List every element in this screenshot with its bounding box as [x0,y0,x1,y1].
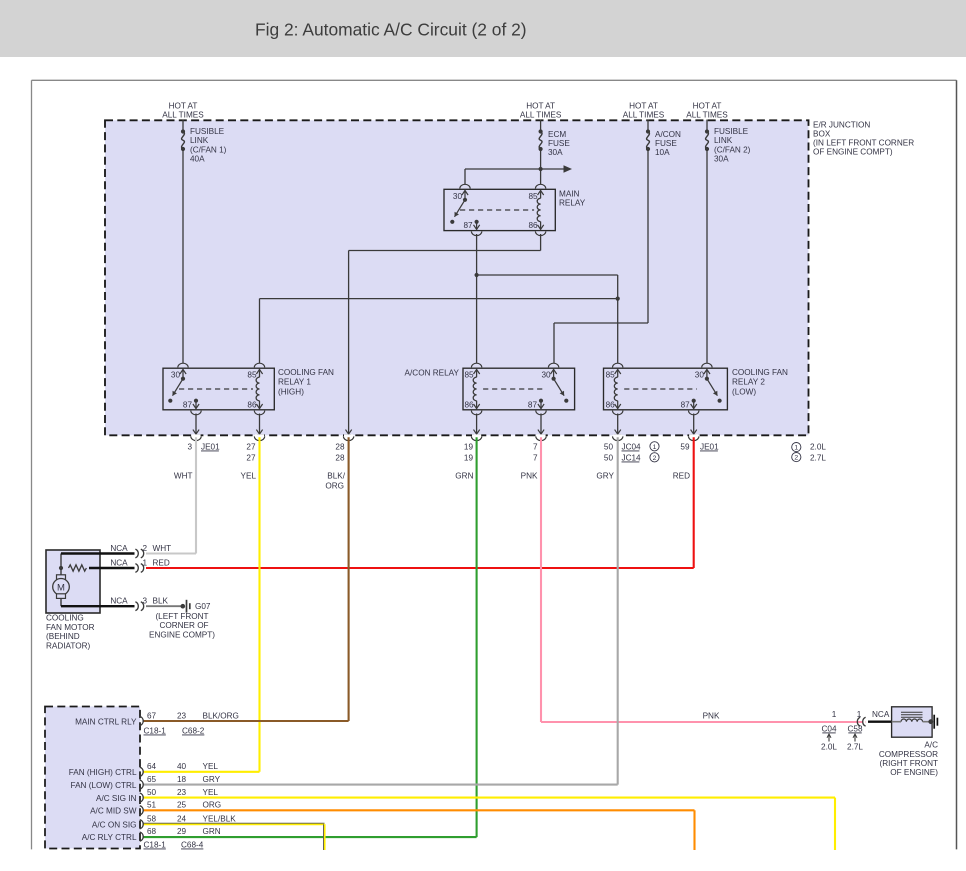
svg-text:A/CON: A/CON [655,130,681,139]
relay: A/CON RELAY [463,363,575,415]
ECM pin FAN (HIGH) CTRL [69,762,219,777]
svg-text:WHT: WHT [174,472,193,481]
svg-text:CORNER OF: CORNER OF [159,621,208,630]
svg-text:COOLING: COOLING [46,614,84,623]
svg-text:C18-1: C18-1 [144,726,167,735]
wire BLK/ORG run (main ctrl rly) [144,437,349,721]
svg-text:WHT: WHT [153,544,172,553]
svg-text:65: 65 [147,775,157,784]
wire YEL run (fan high ctrl) [144,437,260,772]
relay: COOLING FAN RELAY 2 (LOW) [604,363,728,415]
svg-text:87: 87 [463,221,473,230]
wire PNK run (to compressor) [541,437,866,722]
svg-text:YEL/BLK: YEL/BLK [203,815,237,824]
svg-text:25: 25 [177,801,187,810]
svg-text:3: 3 [187,442,192,451]
svg-text:86: 86 [528,221,538,230]
svg-text:NCA: NCA [110,544,128,553]
pin label 59 JE01 [680,442,719,451]
svg-text:YEL: YEL [241,472,257,481]
svg-text:JC14: JC14 [622,453,642,462]
svg-text:85: 85 [606,371,616,380]
relay: COOLING FAN RELAY 1 (HIGH) [163,363,274,415]
svg-text:40A: 40A [190,155,205,164]
svg-text:ORG: ORG [203,801,222,810]
svg-text:MAIN: MAIN [559,189,580,198]
svg-text:ECM: ECM [548,130,566,139]
wire YEL/BLK run (a/c on sig) [144,823,325,850]
svg-text:GRN: GRN [203,827,221,836]
svg-text:YEL: YEL [203,762,219,771]
svg-text:COOLING FAN: COOLING FAN [278,368,334,377]
wire: relay output to box edge GRY [617,414,619,435]
svg-text:HOT AT: HOT AT [526,102,555,111]
wire ORG run (a/c mid sw) [144,810,695,850]
wire: relay output to box edge PNK [540,414,542,435]
wire GRY run (fan low ctrl) [144,437,618,784]
connector motor pin3 [110,597,168,611]
wire: main relay 86 to ECM main-ctrl (dark) [349,234,541,436]
svg-text:A/C RLY CTRL: A/C RLY CTRL [82,833,137,842]
svg-text:87: 87 [183,400,193,409]
svg-text:RELAY: RELAY [559,199,586,208]
svg-text:85: 85 [247,371,257,380]
hot-at label x183 [162,102,204,120]
svg-text:Fig 2: Automatic A/C Circuit (: Fig 2: Automatic A/C Circuit (2 of 2) [255,20,527,40]
PNK wire label [703,712,720,721]
E/R junction box [105,120,809,435]
wire: relay output to box edge RED [693,414,695,435]
pin label 28/28 [335,442,345,462]
svg-text:RELAY 1: RELAY 1 [278,378,311,387]
ECM connector row C18-1 C68-4 [144,840,204,849]
svg-text:RELAY 2: RELAY 2 [732,378,765,387]
pin label 3 JE01 [187,442,220,451]
svg-text:2.0L: 2.0L [810,442,826,451]
svg-text:30: 30 [171,371,181,380]
svg-text:RED: RED [673,472,690,481]
svg-text:67: 67 [147,711,157,720]
svg-text:(IN LEFT FRONT CORNER: (IN LEFT FRONT CORNER [813,139,914,148]
a/con relay label [405,368,460,377]
wire: main87 branch to CF relay2 85 [477,275,618,365]
cooling fan relay1 label [278,368,334,397]
svg-text:(C/FAN 2): (C/FAN 2) [714,145,751,154]
wire: fusible link1 to cooling fan relay1 pin30 [182,149,184,365]
node: junction ECM fuse branch [539,167,543,171]
wire: relay output to box edge GRN [476,414,478,435]
ECM pin MAIN CTRL RLY [75,711,239,726]
connector motor pin1 [110,559,170,573]
svg-text:30: 30 [453,192,463,201]
svg-text:HOT AT: HOT AT [693,102,722,111]
svg-text:E/R JUNCTION: E/R JUNCTION [813,120,870,129]
svg-text:FAN (LOW) CTRL: FAN (LOW) CTRL [71,781,137,790]
svg-text:JE01: JE01 [201,442,220,451]
svg-text:RADIATOR): RADIATOR) [46,641,91,650]
svg-text:ORG: ORG [325,481,344,490]
ECM pin A/C MID SW [90,801,221,816]
svg-text:51: 51 [147,801,157,810]
svg-text:1: 1 [142,559,147,568]
title bar [0,0,966,57]
svg-text:C68-4: C68-4 [181,840,204,849]
svg-text:NCA: NCA [872,710,890,719]
wire label WHT [174,472,193,481]
svg-text:PNK: PNK [521,472,538,481]
ECM pin A/C SIG IN [96,788,218,803]
svg-text:(RIGHT FRONT: (RIGHT FRONT [879,759,938,768]
cooling fan relay2 label [732,368,788,397]
wire: relay output to box edge YEL [259,414,261,435]
hot-at label x540.6 [520,102,562,120]
svg-text:YEL: YEL [203,788,219,797]
wire label BLK/ORG [325,472,345,491]
svg-text:FAN (HIGH) CTRL: FAN (HIGH) CTRL [69,768,137,777]
hot-at label x643.5 [623,102,665,120]
svg-text:2: 2 [653,455,657,462]
connector motor pin2 [110,544,171,558]
svg-text:A/C SIG IN: A/C SIG IN [96,794,137,803]
wire: fusible link2 to cooling fan relay2 pin30 [706,149,708,365]
ECM pin A/C ON SIG [92,815,236,830]
svg-text:BLK/: BLK/ [327,472,345,481]
wire label GRY [596,472,614,481]
junction box edge crossing BLK/ORG-top [343,430,353,441]
svg-text:50: 50 [604,442,614,451]
svg-text:2.7L: 2.7L [847,743,863,752]
junction box edge crossing PNK [536,430,546,441]
svg-text:1: 1 [794,445,798,452]
svg-text:(HIGH): (HIGH) [278,387,304,396]
svg-text:30A: 30A [548,148,563,157]
hot-at label x707 [686,102,728,120]
wire: relay output to box edge WHT [195,414,197,435]
svg-text:(BEHIND: (BEHIND [46,632,80,641]
svg-text:A/C MID SW: A/C MID SW [90,807,137,816]
svg-text:ALL TIMES: ALL TIMES [520,110,562,119]
wire RED run [146,437,694,568]
junction box edge crossing GRY [613,430,623,441]
svg-text:C04: C04 [821,724,836,733]
junction box edge crossing YEL [254,430,264,441]
svg-text:JC04: JC04 [622,442,642,451]
svg-text:2.0L: 2.0L [821,743,837,752]
compressor connector C04/C58 [821,724,863,751]
svg-text:(LOW): (LOW) [732,387,756,396]
svg-text:GRN: GRN [455,472,473,481]
svg-text:24: 24 [177,815,187,824]
A/C compressor clutch [892,707,933,737]
svg-text:ALL TIMES: ALL TIMES [623,110,665,119]
svg-text:18: 18 [177,775,187,784]
svg-text:G07: G07 [195,602,211,611]
wire: A/CON fuse to A/CON relay pin30 [554,149,648,365]
fusible link (C/FAN 1) 40A [181,127,227,163]
svg-text:FUSE: FUSE [655,139,677,148]
svg-text:2.7L: 2.7L [810,453,826,462]
legend 2.0L / 2.7L [792,442,827,462]
svg-text:3: 3 [142,597,147,606]
svg-text:LINK: LINK [190,136,209,145]
svg-text:30A: 30A [714,155,729,164]
svg-text:85: 85 [528,192,538,201]
junction box edge crossing RED [689,430,699,441]
svg-text:COMPRESSOR: COMPRESSOR [879,750,938,759]
svg-text:27: 27 [246,453,256,462]
ECM pin A/C RLY CTRL [82,827,221,842]
node: relay2-85 branch [616,297,620,301]
svg-text:23: 23 [177,788,187,797]
svg-text:COOLING FAN: COOLING FAN [732,368,788,377]
svg-text:PNK: PNK [703,712,720,721]
svg-text:(C/FAN 1): (C/FAN 1) [190,145,227,154]
svg-text:64: 64 [147,762,157,771]
svg-text:NCA: NCA [110,597,128,606]
svg-text:BLK: BLK [153,597,169,606]
svg-text:27: 27 [246,442,256,451]
svg-text:87: 87 [681,400,691,409]
svg-text:GRY: GRY [203,775,221,784]
ECM fuse 30A [539,129,571,157]
junction box edge crossing WHT [191,430,201,441]
svg-text:ALL TIMES: ALL TIMES [686,110,728,119]
svg-text:1: 1 [653,444,657,451]
junction box edge crossing GRN [471,430,481,441]
svg-text:MAIN CTRL RLY: MAIN CTRL RLY [75,717,137,726]
wire label GRN [455,472,473,481]
svg-text:A/C: A/C [924,741,938,750]
wire GRN run (a/c rly ctrl) [144,437,477,837]
wire: hot feed to A/CON fuse [647,120,649,132]
svg-text:50: 50 [147,788,157,797]
svg-text:40: 40 [177,762,187,771]
wire: hot feed to ECM fuse [540,120,542,132]
svg-text:2: 2 [142,544,147,553]
wire: hot feed to fusible link C/FAN1 [182,120,184,132]
svg-text:1: 1 [832,710,837,719]
ground G07 label [149,612,215,639]
svg-text:BOX: BOX [813,130,831,139]
svg-text:85: 85 [464,371,474,380]
svg-text:HOT AT: HOT AT [169,102,198,111]
main relay label [559,189,586,207]
svg-text:GRY: GRY [596,472,614,481]
svg-text:23: 23 [177,711,187,720]
svg-text:JE01: JE01 [700,442,719,451]
svg-text:LINK: LINK [714,136,733,145]
svg-text:1: 1 [857,710,862,719]
wire YEL run (a/c sig in) [144,798,836,850]
ECM control module box [45,707,140,849]
svg-text:86: 86 [606,400,616,409]
wire label YEL [241,472,257,481]
svg-text:RED: RED [153,559,170,568]
E/R junction box label [813,120,914,156]
svg-text:2: 2 [794,455,798,462]
svg-text:50: 50 [604,453,614,462]
svg-text:FUSIBLE: FUSIBLE [190,127,225,136]
A/C compressor label [879,741,938,778]
svg-text:86: 86 [464,400,474,409]
svg-text:M: M [57,582,65,593]
wire: branch to CF relay1 85 [260,299,618,365]
svg-text:7: 7 [533,453,538,462]
svg-text:59: 59 [680,442,690,451]
wire: ECM fuse to main relay pin85 [540,149,542,187]
svg-text:86: 86 [247,400,257,409]
svg-text:C18-1: C18-1 [144,840,167,849]
svg-text:ALL TIMES: ALL TIMES [162,110,204,119]
svg-text:58: 58 [147,815,157,824]
svg-text:A/CON RELAY: A/CON RELAY [405,368,460,377]
svg-text:28: 28 [335,453,345,462]
wire: compressor lead [868,721,892,723]
connector compressor [832,710,890,726]
svg-text:19: 19 [464,453,474,462]
svg-text:FAN MOTOR: FAN MOTOR [46,623,95,632]
svg-text:OF ENGINE): OF ENGINE) [890,768,938,777]
svg-text:30: 30 [541,371,551,380]
ground at compressor [928,715,937,729]
svg-text:A/C ON SIG: A/C ON SIG [92,821,137,830]
svg-text:7: 7 [533,442,538,451]
ground G07 [181,600,211,613]
svg-text:(LEFT FRONT: (LEFT FRONT [155,612,208,621]
wire: branch to main relay pin30 with arrow [465,165,572,186]
wire label PNK [521,472,538,481]
svg-text:28: 28 [335,442,345,451]
svg-text:C68-2: C68-2 [182,726,205,735]
node: main87 branch [475,273,479,277]
wire label RED [673,472,690,481]
svg-text:87: 87 [528,400,538,409]
svg-text:BLK/ORG: BLK/ORG [203,711,239,720]
pin label 27/27 [246,442,256,462]
pin label 50 JC04 / 50 JC14 [604,442,659,463]
ECM pin FAN (LOW) CTRL [71,775,221,790]
svg-text:19: 19 [464,442,474,451]
svg-text:C58: C58 [847,724,862,733]
svg-text:FUSE: FUSE [548,139,570,148]
svg-text:OF ENGINE COMPT): OF ENGINE COMPT) [813,148,893,157]
svg-text:68: 68 [147,827,157,836]
pin label 7/7 [533,442,538,462]
svg-text:29: 29 [177,827,187,836]
cooling fan motor label [46,614,95,651]
wire: hot feed to fusible link C/FAN2 [706,120,708,132]
svg-text:10A: 10A [655,148,670,157]
svg-text:NCA: NCA [110,559,128,568]
fusible link (C/FAN 2) 30A [705,127,751,163]
svg-text:FUSIBLE: FUSIBLE [714,127,749,136]
A/CON fuse 10A [646,129,681,157]
pin label 19/19 [464,442,474,462]
wire WHT run [146,437,196,553]
wire BLK to ground [146,605,181,607]
relay: MAIN RELAY [444,184,555,235]
cooling fan motor [46,550,135,613]
wire: main relay 87 to A/CON relay 85 [476,234,478,365]
svg-text:30: 30 [695,371,705,380]
svg-text:HOT AT: HOT AT [629,102,658,111]
svg-text:ENGINE COMPT): ENGINE COMPT) [149,630,215,639]
ECM connector row C18-1 C68-2 [144,726,205,735]
